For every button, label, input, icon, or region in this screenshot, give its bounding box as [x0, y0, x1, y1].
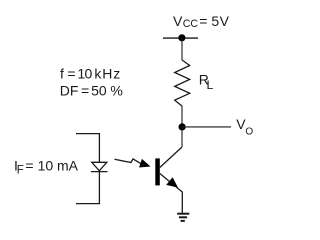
- svg-text:f: f: [60, 66, 64, 82]
- label VCC = 5 V: [173, 13, 230, 30]
- emitter arrowhead: [166, 177, 178, 187]
- svg-text:V: V: [173, 13, 183, 29]
- resistor RL: [175, 60, 190, 106]
- svg-text:O: O: [245, 126, 253, 137]
- emitter lead with wire to ground: [160, 174, 183, 214]
- svg-text:mA: mA: [57, 157, 79, 173]
- svg-text:DF: DF: [60, 83, 79, 99]
- svg-text:CC: CC: [183, 18, 199, 30]
- ground bar 1: [177, 213, 189, 215]
- junction dot collector node: [179, 123, 186, 130]
- label RL: [199, 71, 214, 92]
- label DF = 50 %: [60, 83, 123, 99]
- LED D1 triangle: [92, 162, 107, 171]
- collector lead of phototransistor Q1: [160, 147, 182, 168]
- svg-text:= 5: = 5: [199, 13, 219, 29]
- wire node to VO output: [182, 126, 231, 128]
- power rail VCC: [163, 37, 198, 39]
- label IF = 10 mA: [14, 157, 79, 176]
- svg-text:kHz: kHz: [94, 66, 121, 82]
- wire node down to collector lead: [181, 127, 183, 147]
- light arrowhead: [139, 159, 150, 168]
- wire resistor to collector node: [181, 106, 183, 127]
- LED D1 cathode bar: [91, 171, 108, 173]
- label VO: [236, 116, 253, 137]
- svg-text:=: =: [67, 66, 75, 82]
- wire LED anode (top): [76, 134, 99, 163]
- svg-text:10: 10: [77, 66, 92, 82]
- ground bar 3: [181, 220, 185, 222]
- svg-text:%: %: [110, 83, 122, 99]
- svg-text:V: V: [220, 13, 230, 29]
- svg-text:F: F: [17, 165, 24, 177]
- svg-text:10: 10: [38, 157, 54, 173]
- light arrow squiggle: [115, 159, 142, 164]
- wire rail to resistor: [181, 38, 183, 60]
- base bar of phototransistor Q1: [155, 158, 160, 185]
- svg-text:=: =: [81, 83, 89, 99]
- wire LED cathode (bottom): [76, 172, 99, 204]
- ground bar 2: [179, 216, 187, 218]
- svg-text:L: L: [207, 78, 214, 92]
- svg-text:=: =: [25, 157, 33, 173]
- svg-text:50: 50: [91, 83, 107, 99]
- label f = 10 kHz: [60, 66, 121, 82]
- junction dot at VCC rail: [178, 34, 185, 41]
